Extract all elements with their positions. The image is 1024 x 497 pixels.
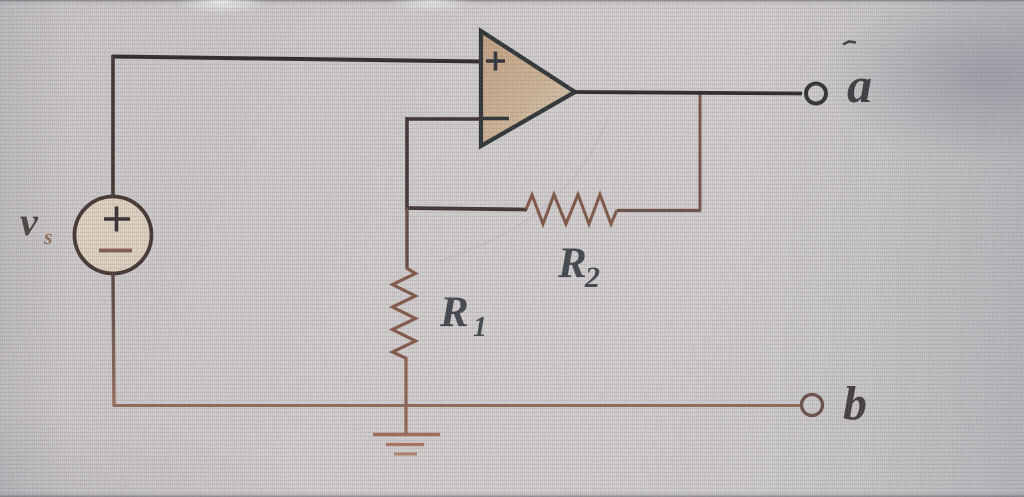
label vs (20, 199, 53, 249)
wire: bottom horizontal to terminal b (113, 404, 801, 407)
ground symbol (373, 435, 440, 455)
op-amp U1 (481, 31, 575, 146)
faint reflection arc (438, 118, 608, 261)
wire: left vertical from top corner down to source (111, 55, 115, 197)
voltage source vs (75, 197, 152, 274)
terminal a (806, 84, 826, 104)
label R2 (557, 240, 600, 294)
stray mark (843, 42, 856, 45)
resistor R1 (393, 268, 416, 359)
wire: below source down to bottom-left corner (113, 273, 114, 406)
wire: ground stem (404, 405, 407, 433)
terminal b (802, 395, 823, 416)
wire: feedback horizontal node to R2 (405, 208, 527, 210)
wire: feedback vertical at x=407 (405, 117, 409, 209)
resistor R2 (526, 195, 617, 225)
- input symbol (481, 117, 509, 120)
wire: node to R1 top (405, 207, 408, 269)
wire: top from source to op-amp + input (112, 57, 481, 62)
label R1 (439, 289, 487, 343)
wire: R1 bottom to ground node (404, 357, 407, 406)
wire: inverting input horizontal (407, 117, 482, 121)
wire: right vertical up to output (699, 92, 702, 211)
+ input symbol (486, 52, 505, 71)
wire: op-amp output to terminal a (575, 92, 802, 94)
wire: R2 to right vertical (617, 209, 701, 212)
